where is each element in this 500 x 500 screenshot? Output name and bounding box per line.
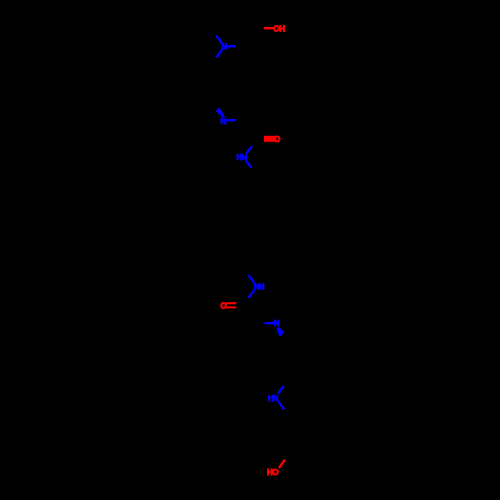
bond N-C right (upper imine N): [226, 119, 235, 121]
bond C-OH (top hydroxymethyl): [264, 27, 274, 29]
bond N-C down-left (lower amide NH): [248, 290, 254, 298]
svg-text:HO: HO: [267, 468, 279, 477]
bond N-C up-left (lower amide NH): [248, 275, 254, 283]
bond C-N from left (lower imine N): [265, 322, 274, 325]
bond N-C up-right (upper amide): [246, 146, 252, 153]
bond N-C down-right (upper amide): [246, 161, 252, 168]
bond N-C up-right (bottom indole): [278, 386, 284, 394]
bond O-C up-right (bottom phenol): [279, 460, 285, 468]
svg-text:O: O: [274, 135, 281, 144]
svg-text:OH: OH: [273, 25, 285, 34]
svg-text:N: N: [221, 42, 227, 51]
bond N-C right (top amine N): [226, 45, 236, 48]
double bond C=O upper line (lower carbonyl): [226, 302, 236, 304]
wedge bond to N (upper imine stereo wedge): [215, 108, 224, 118]
svg-text:NH: NH: [254, 282, 265, 291]
double bond C=O lower line (lower carbonyl): [226, 306, 236, 308]
double bond C=O (upper carbonyl): [264, 136, 276, 142]
svg-text:HN: HN: [268, 394, 279, 403]
svg-text:N: N: [220, 117, 226, 126]
wedge bond from N (lower stereo wedge): [276, 327, 284, 337]
svg-text:HN: HN: [236, 153, 247, 162]
bond N-C up-left (top amine N): [216, 36, 222, 44]
bond N-C down-left (top amine N): [216, 49, 222, 57]
svg-text:N: N: [274, 319, 280, 328]
bond N-C down-right (bottom indole): [278, 402, 284, 410]
